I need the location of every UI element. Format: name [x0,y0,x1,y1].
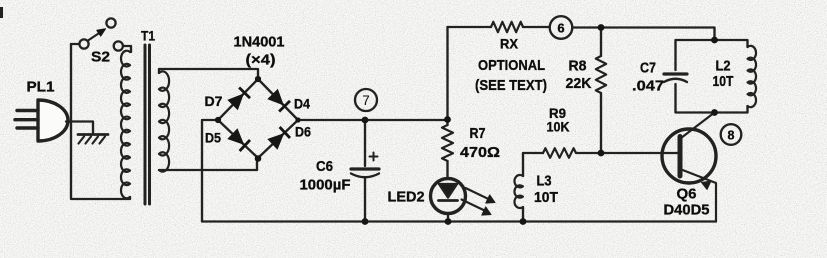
svg-text:D5: D5 [205,130,221,146]
svg-text:C7: C7 [640,60,656,76]
svg-text:6: 6 [557,20,564,35]
svg-text:D7: D7 [205,93,223,109]
svg-text:1N4001: 1N4001 [234,34,285,51]
svg-text:R8: R8 [569,59,587,75]
svg-text:1000µF: 1000µF [300,177,351,194]
svg-text:R7: R7 [470,126,486,142]
svg-text:D6: D6 [295,124,311,140]
svg-text:D40D5: D40D5 [664,202,710,219]
svg-text:22K: 22K [566,75,592,92]
svg-text:7: 7 [362,93,370,108]
svg-text:S2: S2 [91,49,110,66]
svg-text:10T: 10T [713,74,734,90]
svg-text:OPTIONAL: OPTIONAL [478,57,545,74]
svg-text:(×4): (×4) [246,52,276,69]
svg-text:10T: 10T [534,190,558,206]
svg-text:PL1: PL1 [27,79,55,96]
svg-text:470Ω: 470Ω [460,144,500,161]
svg-text:Q6: Q6 [677,187,697,203]
svg-text:T1: T1 [141,28,155,44]
svg-text:RX: RX [500,36,519,52]
svg-text:L2: L2 [716,58,731,74]
svg-text:.047: .047 [632,78,664,95]
svg-text:D4: D4 [294,96,310,112]
svg-text:8: 8 [728,128,735,142]
svg-text:(SEE TEXT): (SEE TEXT) [475,77,547,94]
svg-text:C6: C6 [316,159,333,175]
svg-text:L3: L3 [537,174,552,190]
svg-text:10K: 10K [547,119,570,135]
svg-text:LED2: LED2 [388,189,425,206]
